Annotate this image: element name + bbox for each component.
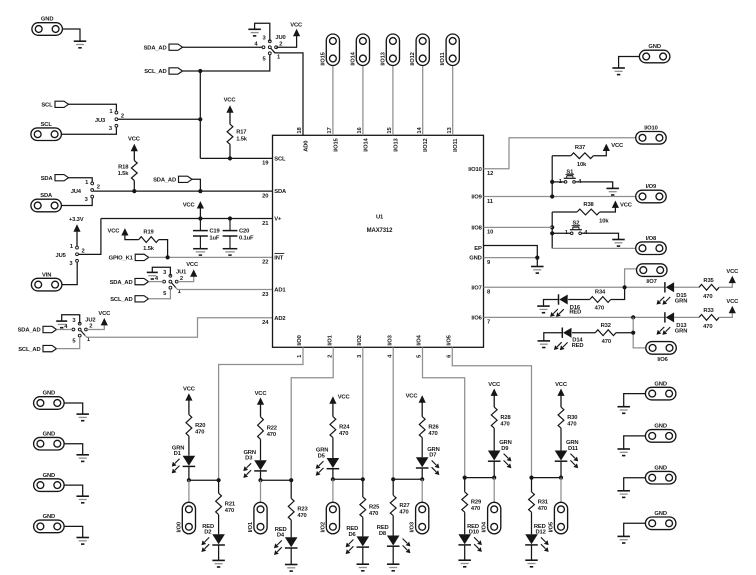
wire JU0 pin2 to VCC (276, 36, 296, 47)
wire SCL pad to JU3 pin3 (61, 127, 116, 134)
power VCC at R37 (603, 143, 624, 151)
wire GND pad right 2 (624, 436, 646, 449)
ground at S2 (612, 240, 625, 247)
svg-text:VCC: VCC (224, 98, 237, 104)
power VCC at R35 (726, 269, 739, 283)
net GND U1 pin9 (484, 257, 538, 259)
jumper JU0 (254, 35, 285, 62)
wire I/O6 vertical (633, 317, 646, 348)
wire GND pad left 2 (64, 444, 83, 455)
wire S2 pin4 to ground (581, 233, 618, 239)
wire GND pad left 3 (64, 485, 83, 496)
resistor R28 470 (491, 407, 511, 428)
pin 6 I/O5 label (447, 334, 453, 358)
svg-text:2: 2 (180, 276, 183, 282)
wire R35 to VCC (719, 282, 732, 287)
svg-text:GND: GND (469, 256, 481, 262)
net flag SCL_AD (JU2 pin5) (18, 345, 56, 352)
svg-text:I/O10: I/O10 (644, 126, 657, 132)
ground left 1 (76, 414, 89, 421)
svg-text:VCC: VCC (726, 269, 739, 275)
net flag SDA (41, 175, 69, 182)
connector GND pad left 2 (34, 431, 65, 450)
pin 16 I/O14 label (357, 127, 369, 152)
svg-text:R28: R28 (500, 415, 511, 421)
junction S2 on vertical (550, 231, 554, 235)
connector GND pad right 1 (645, 381, 676, 400)
pin 24 AD2 label (262, 316, 285, 326)
svg-text:470: 470 (225, 508, 234, 514)
pin 3 I/O2 label (357, 335, 363, 358)
svg-text:D7: D7 (429, 453, 436, 459)
power VCC at R18 (128, 137, 141, 161)
wire SCL_AD to JU1 pin5 (149, 289, 171, 299)
connector I/O1 pad (248, 502, 267, 534)
svg-text:I/O4: I/O4 (482, 521, 488, 532)
wire S1 pin4 to ground (575, 182, 613, 188)
wire D3 to junction (260, 471, 262, 480)
wire JU2 pin2 to VCC (86, 325, 104, 330)
wire R32 right (616, 332, 633, 334)
svg-text:RED: RED (572, 343, 584, 349)
svg-text:D9: D9 (501, 446, 509, 452)
wire junction to R29 (464, 478, 466, 492)
wire D10 to ground (464, 545, 466, 560)
power VCC at R26 (406, 394, 426, 417)
svg-text:R35: R35 (703, 278, 714, 284)
net flag SDA_AD (to JU0 pin 4) (144, 44, 183, 51)
wire SCL net to U1 pin19 (200, 157, 272, 159)
junction I/O5 green node (559, 476, 563, 480)
wire R29 to D10 (464, 512, 466, 534)
wire junction row I/O3 (393, 478, 422, 480)
svg-text:470: 470 (602, 339, 611, 345)
svg-text:22: 22 (262, 260, 268, 266)
wire D5 to junction (332, 469, 334, 480)
pin 12 I/O10 label (468, 167, 493, 177)
svg-text:1uF: 1uF (209, 236, 219, 242)
wire R30 to D11 (560, 428, 562, 450)
connector I/O14 pad (350, 34, 369, 66)
wire D1 to junction (188, 466, 190, 480)
resistor R31 470 (529, 492, 549, 512)
svg-text:VCC: VCC (620, 203, 633, 209)
net I/O9 U1 pin11 to pad (484, 196, 636, 198)
wire S2 pin1 (552, 232, 570, 234)
ground left 2 (76, 455, 89, 462)
power VCC at R30 (555, 382, 568, 407)
junction SCL_AD / SCL node (198, 69, 202, 73)
svg-text:JU1: JU1 (176, 269, 187, 275)
capacitor C19 1uF (193, 219, 221, 256)
junction I/O4 green node (492, 476, 496, 480)
junction I/O6 node (631, 315, 635, 319)
svg-text:1.5k: 1.5k (143, 246, 155, 252)
ground at D8 (387, 564, 400, 571)
net flag SCL (41, 101, 68, 108)
svg-text:VIN: VIN (42, 272, 51, 278)
svg-text:13: 13 (447, 127, 453, 134)
svg-text:470: 470 (369, 511, 378, 517)
svg-text:11: 11 (487, 199, 494, 205)
svg-text:VCC: VCC (555, 382, 568, 388)
resistor R27 470 (390, 495, 409, 515)
svg-text:VCC: VCC (488, 382, 501, 388)
svg-text:I/O11: I/O11 (453, 138, 459, 152)
wire D2 to ground (218, 545, 220, 560)
svg-text:24: 24 (262, 320, 269, 326)
svg-text:JU0: JU0 (275, 35, 285, 41)
svg-text:VCC: VCC (611, 143, 624, 149)
connector I/O9 pad (636, 184, 667, 203)
power VCC at R20 (183, 387, 196, 415)
svg-text:+3.3V: +3.3V (69, 217, 84, 223)
svg-text:2: 2 (82, 249, 85, 255)
junction I/O9 / S1 vertical (550, 194, 554, 198)
svg-text:GND: GND (43, 391, 55, 397)
svg-text:VCC: VCC (406, 394, 419, 400)
pin 18 AD0 label (297, 127, 309, 152)
wire junction row I/O0 (189, 479, 219, 481)
junction I/O2 red node (361, 477, 365, 481)
svg-text:R27: R27 (399, 503, 409, 509)
svg-text:470: 470 (267, 432, 276, 438)
svg-text:I/O9: I/O9 (471, 195, 482, 201)
svg-text:V+: V+ (274, 217, 282, 223)
svg-text:470: 470 (703, 324, 712, 330)
svg-text:R29: R29 (471, 500, 482, 506)
wire SDA pad to JU4 pin3 (61, 198, 92, 206)
svg-text:SDA_AD: SDA_AD (110, 280, 133, 286)
svg-text:I/O13: I/O13 (393, 137, 399, 151)
junction EP/GND (535, 256, 539, 260)
connector I/O10 pad (636, 126, 667, 145)
svg-text:GND: GND (654, 511, 666, 517)
svg-text:GND: GND (648, 44, 660, 50)
wire SDA_AD to JU1 pin4 (149, 281, 163, 283)
svg-text:R18: R18 (118, 164, 129, 170)
resistor R19 1.5k (139, 229, 159, 251)
wire D6 to ground (362, 547, 364, 564)
svg-text:SDA: SDA (41, 176, 54, 182)
wire D13 to R33 (674, 316, 699, 318)
power VCC at R22 (255, 391, 268, 417)
wire JU1 pin3 to ground (152, 267, 170, 276)
switch S1 (559, 169, 582, 185)
svg-text:I/O6: I/O6 (471, 315, 482, 321)
LED D12 RED (525, 524, 549, 552)
jumper JU5 (56, 244, 85, 267)
svg-text:470: 470 (500, 422, 509, 428)
pin 2 I/O1 label (327, 334, 333, 358)
LED D11 GRN (555, 440, 579, 468)
wire R37/S1 vertical (551, 156, 553, 197)
svg-text:SCL: SCL (274, 156, 286, 162)
wire R31 to D12 (531, 512, 533, 534)
pin EP label (474, 246, 482, 252)
ground at JU2 pin3 (56, 321, 67, 328)
svg-text:21: 21 (262, 221, 269, 227)
wire GND pad right 3 (624, 478, 646, 491)
svg-text:I/O13: I/O13 (380, 51, 386, 65)
svg-text:470: 470 (471, 506, 480, 512)
svg-text:D5: D5 (318, 453, 326, 459)
wire I/O7 pad drop (625, 269, 637, 287)
junction R19 on INT net (166, 255, 170, 259)
svg-text:0.1uF: 0.1uF (239, 236, 254, 242)
svg-text:470: 470 (297, 513, 306, 519)
resistor R25 470 (360, 497, 380, 517)
connector I/O11 pad (440, 34, 459, 66)
svg-text:R24: R24 (339, 425, 350, 431)
connector I/O8 pad (636, 236, 667, 255)
connector GND pad top-left (32, 17, 63, 36)
pin 8 I/O7 label (471, 285, 491, 295)
connector I/O5 pad (548, 502, 567, 534)
svg-text:RED: RED (569, 310, 581, 316)
wire GND pad right 4 (624, 523, 646, 536)
svg-text:2: 2 (327, 355, 333, 358)
junction C20 on V+ (228, 216, 232, 220)
svg-text:R31: R31 (538, 500, 549, 506)
svg-text:VCC: VCC (726, 299, 739, 305)
svg-text:12: 12 (487, 171, 493, 177)
pin 15 I/O13 label (387, 127, 399, 152)
ground left 3 (76, 496, 89, 503)
svg-text:19: 19 (262, 161, 269, 167)
svg-text:I/O2: I/O2 (357, 335, 363, 345)
svg-text:JU2: JU2 (85, 317, 95, 323)
wire R34 to D16 (568, 299, 590, 301)
svg-text:SCL_AD: SCL_AD (144, 69, 166, 75)
svg-text:R30: R30 (567, 415, 577, 421)
wire JU0 pin1 to U1 pin18 AD0 (273, 51, 303, 136)
svg-text:I/O8: I/O8 (646, 236, 657, 242)
wire R38/S2 vertical (551, 212, 553, 248)
wire GPIO_K1 / INT net to U1 pin22 (149, 256, 273, 258)
wire junction to R23 (290, 480, 292, 498)
wire GND pad to ground (62, 29, 80, 41)
power VCC at R33 (726, 299, 739, 313)
wire JU5 pin2 to V+ net (78, 219, 101, 255)
wire JU4 pin2 / SDA net to U1 pin20 (94, 190, 273, 192)
wire VIN pad to JU5 pin3 (62, 263, 77, 285)
resistor R33 470 (699, 308, 719, 330)
wire junction to I/O1 pad (260, 480, 262, 502)
svg-text:10k: 10k (599, 219, 609, 225)
net I/O6 U1 pin7 row (484, 316, 665, 318)
svg-text:VCC: VCC (186, 262, 199, 268)
wire R21 to D2 (218, 515, 220, 535)
svg-text:GND: GND (43, 473, 55, 479)
svg-text:GND: GND (41, 17, 53, 23)
wire R32 to D14 (572, 332, 595, 334)
svg-text:AD2: AD2 (274, 316, 285, 322)
wire I/O11 pad to U1 pin 13 (452, 65, 454, 135)
net I/O8 U1 pin10 (484, 226, 553, 228)
net flag SDA_AD (JU2 pin4) (18, 326, 57, 333)
power +3.3V arrow (69, 217, 84, 246)
wire D11 to junction (560, 461, 562, 477)
svg-text:I/O7: I/O7 (471, 285, 481, 291)
svg-text:I/O5: I/O5 (548, 521, 554, 532)
svg-text:14: 14 (417, 127, 423, 134)
junction VCC/C19 on V+ (198, 216, 202, 220)
junction S1 on vertical (550, 180, 554, 184)
wire D4 to ground (290, 548, 292, 565)
resistor R22 470 (258, 417, 277, 440)
svg-text:1.5k: 1.5k (236, 136, 248, 142)
LED D13 GRN (657, 312, 688, 335)
junction I/O1 red node (289, 478, 293, 482)
ground at S1 (606, 188, 619, 195)
svg-text:470: 470 (538, 506, 547, 512)
resistor R35 470 (699, 278, 719, 300)
wire GND pad to ground (top-right) (619, 57, 640, 68)
svg-text:R34: R34 (595, 289, 606, 295)
connector I/O2 pad (320, 502, 339, 534)
wire D7 to junction (421, 468, 423, 479)
svg-text:R20: R20 (195, 423, 205, 429)
svg-text:SDA: SDA (40, 193, 53, 199)
wire R28 to D9 (493, 428, 495, 450)
svg-text:10: 10 (487, 230, 493, 236)
svg-text:2: 2 (89, 324, 92, 330)
junction I/O0 green node (187, 478, 191, 482)
pin 21 V+ label (262, 217, 282, 227)
pin 14 I/O12 label (417, 127, 429, 152)
wire VCC to R19 (125, 235, 139, 240)
resistor R29 470 (462, 492, 482, 512)
pin 11 I/O9 label (471, 195, 493, 205)
connector I/O3 pad (410, 502, 429, 534)
connector GND pad right 4 (645, 511, 676, 530)
ground at D10 (458, 560, 471, 567)
connector GND pad left 4 (34, 514, 65, 533)
pin 13 I/O11 label (447, 127, 459, 152)
svg-text:C20: C20 (239, 228, 249, 234)
svg-text:2: 2 (279, 41, 282, 47)
wire R38 to VCC (600, 207, 616, 212)
svg-text:18: 18 (297, 127, 303, 134)
pin 9 GND label (469, 256, 491, 266)
svg-text:I/O15: I/O15 (320, 51, 326, 65)
connector I/O13 pad (380, 34, 399, 66)
wire U1 pin to I/O3 column (392, 347, 394, 479)
junction I/O1 green node (258, 478, 262, 482)
LED D4 RED (274, 527, 298, 555)
svg-text:470: 470 (595, 305, 604, 311)
connector SCL pad (31, 122, 62, 141)
svg-text:VCC: VCC (183, 387, 196, 393)
net flag SDA_AD (to SDA net) (153, 176, 192, 183)
wire junction to I/O4 pad (493, 478, 495, 503)
wire U1 pin to I/O2 column (362, 347, 364, 479)
wire SCL vertical x=200 (199, 71, 201, 158)
svg-text:VCC: VCC (128, 137, 141, 143)
ground right 1 (617, 407, 630, 414)
svg-text:R17: R17 (236, 130, 246, 136)
svg-text:I/O3: I/O3 (410, 521, 416, 532)
connector GND pad right 2 (645, 424, 676, 443)
resistor R30 470 (558, 407, 577, 428)
jumper JU4 (71, 180, 100, 203)
wire R25 to D6 (362, 517, 364, 536)
svg-text:15: 15 (387, 127, 393, 134)
resistor R38 10k (577, 202, 609, 225)
svg-text:R37: R37 (575, 145, 585, 151)
svg-text:SCL: SCL (41, 103, 53, 109)
LED D6 RED (346, 526, 370, 554)
ground right 3 (617, 491, 630, 498)
ground at D14 (538, 341, 551, 348)
power VCC at JU0 (290, 22, 303, 36)
svg-text:I/O15: I/O15 (333, 137, 339, 151)
resistor R21 470 (216, 493, 236, 514)
connector I/O0 pad (176, 502, 195, 534)
svg-text:D4: D4 (277, 533, 285, 539)
svg-text:D10: D10 (469, 530, 479, 536)
svg-text:SCL_AD: SCL_AD (18, 347, 40, 353)
LED D5 GRN (316, 448, 340, 476)
svg-text:R23: R23 (297, 507, 308, 513)
wire R26 to D7 (421, 438, 423, 458)
svg-text:470: 470 (428, 431, 437, 437)
wire GND pad right 1 (624, 394, 646, 407)
svg-text:SDA_AD: SDA_AD (18, 328, 41, 334)
svg-text:I/O0: I/O0 (297, 335, 303, 345)
svg-text:VCC: VCC (255, 391, 268, 397)
svg-text:SDA_AD: SDA_AD (144, 45, 167, 51)
wire I/O12 pad to U1 pin 14 (422, 65, 424, 135)
wire D9 to junction (493, 461, 495, 477)
svg-text:JU5: JU5 (56, 253, 67, 259)
LED D9 GRN (488, 440, 512, 468)
wire SDA_AD to JU0 pin4 (183, 46, 263, 48)
wire R33 to VCC (719, 312, 732, 317)
svg-text:D6: D6 (348, 532, 356, 538)
junction R18 on SDA (132, 189, 136, 193)
svg-text:I/O2: I/O2 (320, 522, 326, 532)
svg-text:23: 23 (262, 292, 269, 298)
power VCC at R24 (329, 395, 350, 417)
wire SCL_AD to JU0 pin5 (183, 55, 270, 72)
LED D14 RED (554, 328, 584, 351)
connector I/O4 pad (482, 502, 501, 534)
svg-text:VCC: VCC (98, 311, 111, 317)
net flag SCL_AD (to JU0 pin 5) (144, 68, 182, 75)
net AD2 JU2 pin1 to U1 pin24 (85, 318, 273, 337)
svg-text:I/O6: I/O6 (657, 357, 668, 363)
svg-text:I/O14: I/O14 (350, 51, 356, 65)
svg-text:R22: R22 (267, 426, 277, 432)
svg-text:SDA: SDA (274, 189, 287, 195)
wire R37 left (552, 155, 571, 157)
ground at D4 (285, 565, 298, 572)
svg-text:D1: D1 (174, 451, 182, 457)
resistor R18 1.5k (118, 161, 138, 192)
svg-text:INT: INT (274, 255, 283, 261)
wire junction to I/O0 pad (188, 480, 190, 502)
wire I/O15 pad to U1 pin 17 (332, 65, 334, 135)
wire SCL_AD to JU2 pin5 (57, 337, 80, 349)
junction I/O5 red node (529, 476, 533, 480)
connector GND pad left 1 (34, 391, 65, 410)
LED D3 GRN (243, 450, 266, 478)
svg-text:I/O1: I/O1 (248, 521, 254, 532)
power VCC at R28 (488, 382, 501, 407)
svg-text:JU3: JU3 (95, 118, 106, 124)
